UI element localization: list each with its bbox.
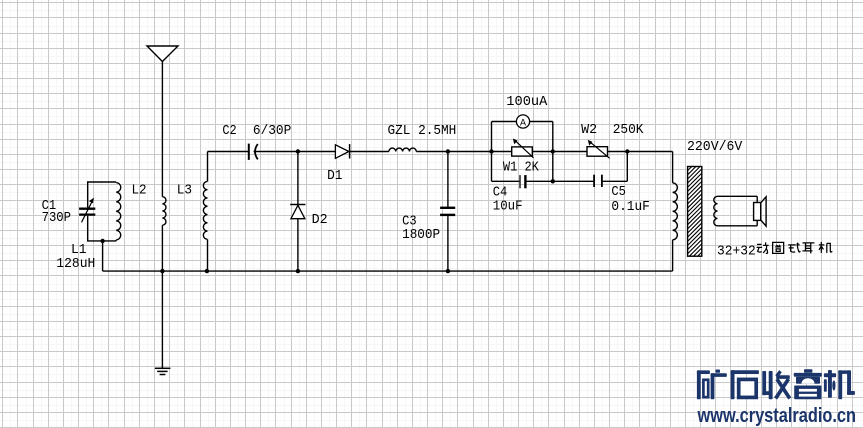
svg-text:W2: W2 — [581, 122, 597, 138]
svg-text:L3: L3 — [177, 182, 192, 198]
svg-text:GZL 2.5MH: GZL 2.5MH — [388, 123, 457, 139]
svg-text:10uF: 10uF — [493, 198, 523, 214]
svg-text:L2: L2 — [132, 182, 147, 198]
svg-text:100uA: 100uA — [506, 94, 548, 110]
svg-text:A: A — [520, 118, 526, 129]
svg-text:32+32: 32+32 — [717, 244, 756, 260]
svg-text:220V/6V: 220V/6V — [687, 139, 743, 155]
svg-text:128uH: 128uH — [56, 256, 95, 272]
svg-text:6/30P: 6/30P — [253, 123, 291, 139]
svg-text:www.crystalradio.cn: www.crystalradio.cn — [697, 404, 856, 427]
svg-text:0.1uF: 0.1uF — [611, 199, 650, 215]
svg-text:W1 2K: W1 2K — [503, 159, 540, 175]
svg-text:1800P: 1800P — [402, 227, 440, 243]
svg-text:250K: 250K — [613, 122, 644, 138]
svg-text:D1: D1 — [327, 168, 342, 184]
svg-text:C2: C2 — [222, 123, 236, 139]
svg-text:730P: 730P — [42, 210, 71, 226]
svg-text:D2: D2 — [312, 212, 328, 228]
svg-text:C5: C5 — [611, 184, 626, 200]
